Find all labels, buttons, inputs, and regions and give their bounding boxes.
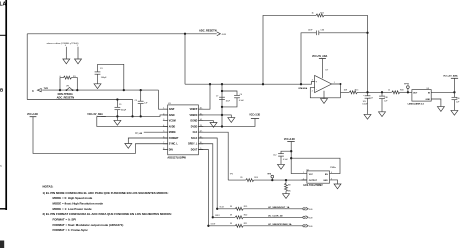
svg-text:10R: 10R xyxy=(344,89,348,91)
capacitor C4 branch xyxy=(222,91,237,107)
wire VREFP riser xyxy=(198,84,210,109)
wire feedback R22 branch xyxy=(263,15,316,84)
zone letter LA xyxy=(0,2,7,8)
notes text block xyxy=(43,185,172,233)
power symbol VCC+3.3D osc xyxy=(284,139,295,141)
wire input loop bottom xyxy=(27,100,132,117)
svg-text:R8: R8 xyxy=(288,184,290,186)
resistor R21 xyxy=(235,224,243,227)
svg-text:OPA365A: OPA365A xyxy=(298,87,308,90)
svg-text:TP4: TP4 xyxy=(267,173,271,176)
resistor R20 xyxy=(235,216,243,219)
node R8 tap xyxy=(285,179,287,181)
svg-text:ECS-TXO-2700MV: ECS-TXO-2700MV xyxy=(304,185,324,187)
wire VCC to oscillator xyxy=(291,142,307,174)
svg-text:R22: R22 xyxy=(320,12,325,14)
node TP10 xyxy=(407,91,409,93)
svg-text:C30: C30 xyxy=(456,98,459,100)
node junction top wire x185 xyxy=(184,33,186,35)
IC U2 oscillator box xyxy=(307,171,330,183)
svg-text:IN: IN xyxy=(428,93,431,95)
label row1 stub xyxy=(220,207,225,209)
node VREFN x222 xyxy=(221,114,223,116)
svg-text:<: < xyxy=(0,164,2,168)
svg-text:MODE = 1: Low Power mode: MODE = 1: Low Power mode xyxy=(53,207,93,211)
pin stubs right U1 xyxy=(198,109,203,149)
svg-text:LA: LA xyxy=(0,2,7,8)
ground oscillator xyxy=(334,184,341,189)
node C4 top xyxy=(221,90,223,92)
svg-text:TVR: TVR xyxy=(44,88,49,90)
label ADC_RESETN under jumper xyxy=(57,95,75,99)
jumper JP1 xyxy=(66,89,68,91)
svg-text:AVDD: AVDD xyxy=(169,125,176,128)
svg-text:C38: C38 xyxy=(384,97,387,99)
svg-text:VCC: VCC xyxy=(309,174,314,176)
resistor R24 xyxy=(246,179,254,182)
svg-text:AINN: AINN xyxy=(169,114,175,117)
part label ECS-TXO xyxy=(304,185,324,187)
resistor R33 xyxy=(392,91,400,94)
svg-text:TP5: TP5 xyxy=(230,173,233,175)
connector TP_L08 to MODE xyxy=(135,133,142,135)
svg-text:U7: U7 xyxy=(325,69,329,71)
svg-text:VCC+3.3D: VCC+3.3D xyxy=(284,139,295,141)
zone tick lower xyxy=(0,208,7,210)
wire VREFN to ground xyxy=(198,115,231,118)
svg-text:2: 2 xyxy=(312,90,313,92)
svg-text:1) EL PIN MODE CONFIGURA EL AD: 1) EL PIN MODE CONFIGURA EL ADC PARA QUE… xyxy=(43,191,169,195)
power symbol VCC+3.3D mid xyxy=(249,115,260,117)
svg-text:AINP: AINP xyxy=(169,108,175,111)
jumper option arrow 0 xyxy=(65,45,66,47)
node junction TVR wire x60 xyxy=(59,89,61,91)
op-amp U7 OPA365A xyxy=(315,75,332,92)
node junction TVR wire x77 xyxy=(76,89,78,91)
wire inverting feedback loop xyxy=(310,88,340,98)
svg-text:DRDY_L: DRDY_L xyxy=(188,144,198,146)
ground op-amp V- xyxy=(323,91,325,99)
node SPI row2 xyxy=(212,216,214,218)
wire main input TVR run xyxy=(42,89,158,91)
wire VCC+3.3D to SYNC_L xyxy=(33,117,168,154)
svg-text:1k: 1k xyxy=(312,12,314,14)
svg-text:UC_CLOK_2D: UC_CLOK_2D xyxy=(268,216,283,218)
sheet border left xyxy=(5,0,7,210)
svg-text:3: 3 xyxy=(163,119,164,121)
svg-text:R21: R21 xyxy=(244,223,247,225)
svg-text:OUTPUT: OUTPUT xyxy=(309,180,318,182)
part label LM4132AMF xyxy=(408,102,425,105)
svg-text:VCC+5V_ANA: VCC+5V_ANA xyxy=(87,113,103,116)
svg-text:JP1: JP1 xyxy=(66,85,69,87)
wire DOUT down xyxy=(198,150,208,226)
svg-text:39: 39 xyxy=(230,206,232,208)
label row3 stub xyxy=(211,224,216,226)
svg-text:1uF: 1uF xyxy=(144,102,148,104)
node bus x222 xyxy=(221,83,223,85)
svg-text:R20: R20 xyxy=(244,214,247,216)
svg-text:1: 1 xyxy=(77,45,78,47)
svg-text:27MHz: 27MHz xyxy=(330,167,336,169)
net label row2 xyxy=(268,216,283,218)
capacitor C9 xyxy=(116,100,118,108)
node bus x301 xyxy=(300,83,302,85)
svg-text:U2: U2 xyxy=(306,169,308,171)
wire oscillator GND xyxy=(330,180,338,184)
power symbol VCC+5V_ANA op-amp xyxy=(312,55,328,58)
svg-text:GND: GND xyxy=(323,180,328,182)
capacitor C5 xyxy=(140,90,142,101)
svg-text:VCC+3.3D: VCC+3.3D xyxy=(249,115,260,117)
off-page arrow row1 xyxy=(303,208,305,210)
svg-text:+: + xyxy=(315,79,317,83)
ground R8 xyxy=(283,194,290,199)
svg-text:FORMAT = float: Modulator outp: FORMAT = float: Modulator output mode (A… xyxy=(53,223,124,227)
svg-text:8: 8 xyxy=(163,148,164,150)
wire EN loop xyxy=(291,158,340,173)
pin numbers U2 xyxy=(303,172,332,181)
off-page arrow row3 xyxy=(303,225,305,227)
pin numbers U1 xyxy=(163,108,201,150)
ground C30 xyxy=(451,110,458,115)
wire SPI row3 xyxy=(208,225,235,227)
svg-text:1uF: 1uF xyxy=(384,100,388,102)
IC U1 ADS127L01 box xyxy=(168,105,199,155)
wire decoupling vertical x222 xyxy=(221,84,223,126)
capacitor C12 xyxy=(281,151,291,153)
svg-text:2: 2 xyxy=(163,113,164,115)
svg-text:5: 5 xyxy=(163,131,164,133)
wire REF GND to ground xyxy=(431,99,441,107)
node output x340.5 xyxy=(340,83,342,85)
svg-text:C12: C12 xyxy=(273,155,276,157)
svg-text:0: 0 xyxy=(65,45,66,47)
label row2 stub xyxy=(215,215,221,217)
svg-text:DRDY: DRDY xyxy=(215,215,221,217)
svg-text:4: 4 xyxy=(163,125,164,127)
svg-text:MODE = float: High Resolution: MODE = float: High Resolution mode xyxy=(53,201,104,205)
ground below C9 xyxy=(116,116,118,120)
zone corner mark bottom xyxy=(0,241,4,248)
wire DGND to ground xyxy=(198,121,213,123)
capacitor C36 xyxy=(315,31,317,36)
capacitor C30 xyxy=(452,96,458,98)
wire oscillator output stub xyxy=(302,179,307,181)
svg-text:8: 8 xyxy=(32,91,34,93)
svg-text:DOUT: DOUT xyxy=(211,224,216,226)
zone letter B xyxy=(0,88,4,93)
wire to AINP pin xyxy=(159,90,168,109)
svg-text:TP_L08: TP_L08 xyxy=(135,133,142,135)
node bus x263 xyxy=(262,83,264,85)
svg-text:B: B xyxy=(0,88,4,93)
svg-text:UC_SSEGPXVD6M_3A: UC_SSEGPXVD6M_3A xyxy=(268,223,292,226)
node C4 bottom xyxy=(221,106,223,108)
ground C17 xyxy=(364,114,371,119)
node junction input wire x140.7 xyxy=(140,89,142,91)
IC U9 reference LM4132 xyxy=(412,90,431,102)
svg-text:4.09: 4.09 xyxy=(309,209,313,211)
power symbol VCC+5V_ANA right xyxy=(443,75,458,78)
off-page arrow ADC_RESETN xyxy=(217,32,221,36)
svg-text:39: 39 xyxy=(230,214,232,216)
node bus x210 xyxy=(209,83,211,85)
svg-text:39: 39 xyxy=(240,177,242,179)
svg-text:DOUT: DOUT xyxy=(191,149,198,151)
wire SPI row1 xyxy=(217,208,235,210)
svg-text:C5: C5 xyxy=(135,100,137,102)
svg-text:VCC+5V_ANA: VCC+5V_ANA xyxy=(312,55,328,58)
svg-text:4: 4 xyxy=(331,172,332,174)
zone tick mid-left xyxy=(0,164,2,168)
svg-text:3: 3 xyxy=(312,80,313,82)
svg-text:LM4132AMF-4.1: LM4132AMF-4.1 xyxy=(408,102,425,105)
svg-text:47k: 47k xyxy=(288,190,291,192)
svg-text:MODE: MODE xyxy=(169,132,176,134)
svg-text:FORMAT = 0: SPI: FORMAT = 0: SPI xyxy=(53,218,77,222)
node output x382 xyxy=(381,91,383,93)
resistor R15 output xyxy=(349,91,357,94)
svg-text:C17: C17 xyxy=(370,97,373,99)
node output x367.5 xyxy=(366,91,368,93)
svg-text:ADC_RESETN: ADC_RESETN xyxy=(57,95,75,99)
svg-text:1: 1 xyxy=(334,82,335,84)
svg-text:DVDD: DVDD xyxy=(191,126,198,128)
wire top ADC_RESETN run xyxy=(27,33,217,35)
power symbol VCC+5V_ANA left xyxy=(87,113,103,116)
svg-text:DGND: DGND xyxy=(191,121,198,123)
svg-text:U9: U9 xyxy=(427,88,429,90)
resistor R8 pulldown xyxy=(285,180,287,183)
node TP4 xyxy=(271,179,273,181)
svg-text:C9: C9 xyxy=(119,104,121,106)
wire feedback down to output node xyxy=(367,33,369,93)
wire DVDD to VCC+3.3D xyxy=(198,119,255,127)
part label ADS127L01IPW xyxy=(167,156,186,159)
svg-text:4.09: 4.09 xyxy=(222,34,227,36)
svg-text:MODE = 0: High Speed mode: MODE = 0: High Speed mode xyxy=(53,196,93,200)
node SPI row3 xyxy=(207,225,209,227)
node C5 bottom xyxy=(140,115,142,117)
svg-text:R19: R19 xyxy=(244,206,247,208)
ground DGND xyxy=(210,123,217,128)
wire DRDY_L down xyxy=(198,144,212,218)
svg-text:ADS127L01IPW: ADS127L01IPW xyxy=(167,156,186,159)
wire analog rail to AINN xyxy=(101,115,167,116)
node junction input wire x123.8 xyxy=(123,89,125,91)
svg-text:EN: EN xyxy=(325,174,328,176)
svg-text:VREFN: VREFN xyxy=(190,115,198,117)
svg-text:FORMAT = 1: Frame-Sync: FORMAT = 1: Frame-Sync xyxy=(53,228,89,232)
svg-text:4.09: 4.09 xyxy=(309,226,313,228)
node C9 bottom xyxy=(116,115,118,117)
wire CLK down xyxy=(198,132,228,180)
svg-text:-: - xyxy=(316,88,317,92)
capacitor C38 xyxy=(381,92,383,96)
svg-text:1uF: 1uF xyxy=(456,102,460,104)
test point TP10 xyxy=(407,88,409,92)
svg-text:1: 1 xyxy=(303,172,304,174)
svg-text:NON-TPS06A: NON-TPS06A xyxy=(58,93,73,96)
label NON-TPS06A xyxy=(58,93,73,96)
label R1 xyxy=(60,76,77,78)
svg-text:R24: R24 xyxy=(254,177,257,179)
svg-text:C3: C3 xyxy=(100,68,103,70)
svg-text:R15: R15 xyxy=(355,89,358,91)
wire input loop left vertical xyxy=(26,34,28,100)
svg-text:4.09: 4.09 xyxy=(309,218,313,220)
wire FORMAT to ground xyxy=(128,138,167,144)
resistor R1 bypass loop xyxy=(60,78,64,91)
svg-text:39: 39 xyxy=(230,223,232,225)
wire op-amp output xyxy=(332,84,350,98)
wire SCLK down xyxy=(198,138,217,209)
capacitor C17 xyxy=(367,92,369,95)
node feedback x367.5 xyxy=(366,32,368,34)
node C12 tap xyxy=(290,150,292,152)
svg-text:SCLK: SCLK xyxy=(220,207,225,209)
ground C12 xyxy=(278,164,285,169)
ground REF GND xyxy=(437,107,444,112)
svg-text:0.1uF: 0.1uF xyxy=(283,159,289,161)
pin names U1 xyxy=(169,108,198,151)
jumper option arrow 1 xyxy=(77,45,78,47)
node DVDD x222 xyxy=(221,125,223,127)
svg-text:SYNC_L: SYNC_L xyxy=(169,144,179,146)
wire C3 top to input wire xyxy=(98,64,124,90)
svg-text:100pF: 100pF xyxy=(101,77,107,79)
svg-text:VCC+3.3D: VCC+3.3D xyxy=(27,114,38,116)
zone tick upper xyxy=(0,34,7,36)
node EN tap xyxy=(290,157,292,159)
svg-text:OUT: OUT xyxy=(413,93,418,95)
svg-text:1: 1 xyxy=(163,108,164,110)
resistor R22 xyxy=(316,14,324,17)
svg-text:SCLK: SCLK xyxy=(191,138,198,140)
off-page connector TVR xyxy=(37,89,41,92)
svg-text:valores a utilizar (COMSEL y T: valores a utilizar (COMSEL y TPS-06) xyxy=(47,42,79,45)
svg-text:R33: R33 xyxy=(400,89,403,91)
svg-text:6: 6 xyxy=(163,136,164,138)
power symbol VCC+3.3D left xyxy=(27,114,38,116)
net label row3 xyxy=(268,223,292,226)
wire reference bus xyxy=(185,82,315,85)
node SPI row1 xyxy=(216,208,218,210)
label 27MHz xyxy=(330,167,336,169)
svg-text:GND: GND xyxy=(426,99,431,101)
svg-text:VREFP: VREFP xyxy=(190,109,198,111)
wire SPI row2 xyxy=(213,216,235,218)
svg-text:100pF: 100pF xyxy=(121,109,127,111)
svg-text:100uF: 100uF xyxy=(362,103,368,105)
svg-text:ADC_RESETN: ADC_RESETN xyxy=(199,29,217,33)
svg-text:CLK: CLK xyxy=(193,132,198,134)
svg-text:VCOM: VCOM xyxy=(169,121,176,123)
off-page arrow row2 xyxy=(303,216,305,218)
wire AVDD rail from VCC xyxy=(97,116,168,126)
label near CLK riser xyxy=(230,173,233,175)
svg-text:1k: 1k xyxy=(388,89,390,91)
node REF IN x454.4 xyxy=(453,91,455,93)
svg-text:2) EL PIN FORMAT CONFIGURA EL: 2) EL PIN FORMAT CONFIGURA EL ADC PARA Q… xyxy=(43,212,172,216)
wire clock row xyxy=(228,179,246,181)
svg-text:C36: C36 xyxy=(320,30,325,32)
node rail x132.5 xyxy=(131,115,133,117)
svg-text:10nF: 10nF xyxy=(308,30,313,32)
ground below C3 xyxy=(94,84,101,89)
test point TP4 xyxy=(271,175,274,178)
svg-text:DIN: DIN xyxy=(169,149,173,151)
wire feedback C36 branch xyxy=(301,33,316,84)
ground FORMAT xyxy=(125,144,132,149)
node C9 top xyxy=(116,98,118,100)
annotation note jumper values xyxy=(47,42,79,45)
wire vertical x185 to ref bus xyxy=(184,34,186,84)
ground C38 xyxy=(379,112,386,117)
ground VREFN xyxy=(228,118,235,123)
svg-text:NOTAS:: NOTAS: xyxy=(43,185,54,189)
net label ADC_RESETN top xyxy=(199,29,227,37)
net label row1 xyxy=(268,206,290,209)
wire REF IN to VCC xyxy=(431,91,454,93)
svg-text:C7: C7 xyxy=(216,96,218,98)
svg-text:7: 7 xyxy=(163,142,164,144)
svg-text:10uF: 10uF xyxy=(226,101,231,103)
svg-text:UC_SSEG/DOUT_1A: UC_SSEG/DOUT_1A xyxy=(268,206,290,209)
svg-text:0.1uF: 0.1uF xyxy=(239,100,245,102)
svg-text:TP10: TP10 xyxy=(404,83,409,85)
svg-text:VCC+5V_ANA: VCC+5V_ANA xyxy=(443,75,458,78)
svg-text:C4: C4 xyxy=(240,94,242,96)
resistor R19 xyxy=(235,207,243,210)
capacitor C7 xyxy=(219,96,225,98)
pin stubs left U1 xyxy=(163,109,168,149)
capacitor C3 xyxy=(97,64,99,71)
svg-text:FORMAT: FORMAT xyxy=(169,137,179,140)
